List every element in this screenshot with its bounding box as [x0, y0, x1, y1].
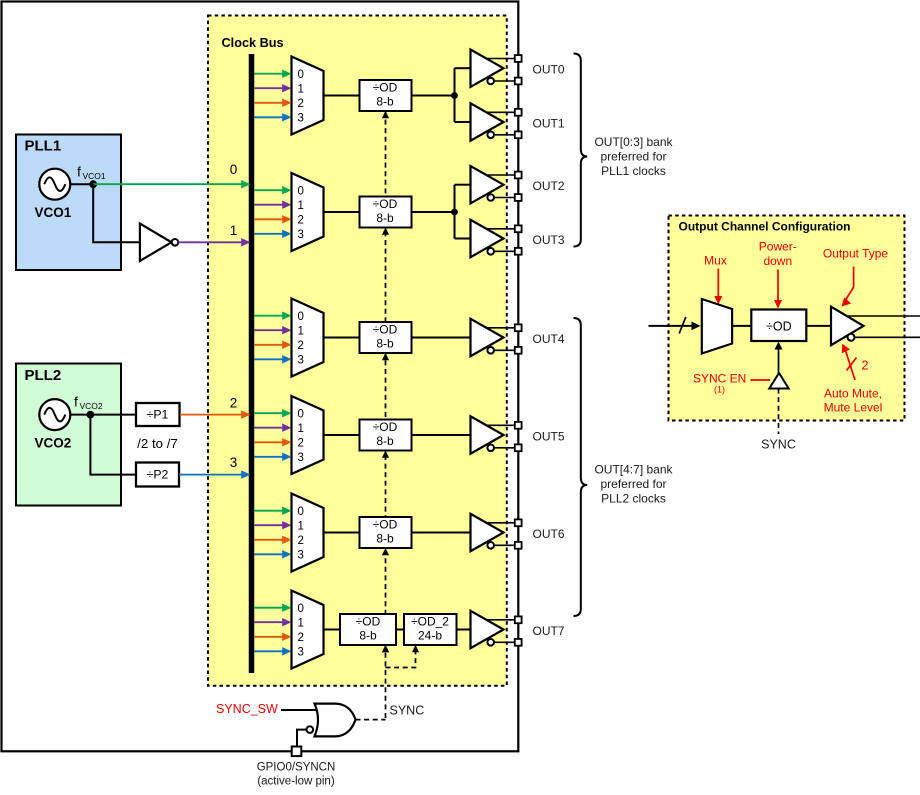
svg-text:down: down — [763, 254, 792, 268]
svg-text:0: 0 — [298, 311, 304, 323]
wire mux M2 to divider OD2 — [324, 211, 360, 213]
svg-text:8-b: 8-b — [376, 337, 394, 351]
wire mux M4 to divider OD4 — [324, 434, 360, 436]
svg-text:2: 2 — [298, 340, 304, 352]
inverting bubble U2B — [487, 248, 494, 255]
svg-text:÷OD: ÷OD — [373, 197, 398, 211]
output buffer U6 — [471, 611, 504, 648]
svg-text:OUT[4:7] bank: OUT[4:7] bank — [594, 463, 673, 477]
svg-text:SYNC: SYNC — [390, 704, 425, 718]
pin OUT3 P — [515, 225, 522, 232]
mux M2 — [292, 173, 324, 251]
Output Channel Configuration box — [669, 216, 905, 421]
wire noninverting output — [848, 315, 920, 317]
pin OUT0 N — [515, 78, 522, 85]
svg-text:1: 1 — [298, 325, 304, 337]
red line SYNC EN to sync buffer — [751, 379, 771, 381]
PLL1 block — [16, 135, 121, 271]
svg-text:OUT6: OUT6 — [533, 527, 565, 541]
svg-text:8-b: 8-b — [376, 95, 394, 109]
svg-text:PLL2 clocks: PLL2 clocks — [601, 492, 666, 506]
svg-text:OUT7: OUT7 — [533, 624, 565, 638]
inverting bubble U1B — [487, 132, 494, 139]
svg-text:Mute Level: Mute Level — [824, 401, 883, 415]
wire divider OD2 to output junction — [412, 211, 455, 213]
oscillator VCO2 — [39, 399, 70, 430]
wire junction to P2 divider — [90, 415, 135, 475]
wire bus input 0 (green) — [93, 183, 241, 185]
wire divider OD1 to output junction — [412, 95, 455, 97]
divider OD4 face — [360, 420, 412, 451]
wire divider to buffer row 3 — [412, 337, 471, 339]
svg-text:SYNC EN: SYNC EN — [693, 372, 746, 386]
wire mux M5 input 1 — [254, 524, 283, 526]
wire SYNC_SW to OR gate — [281, 709, 317, 711]
svg-text:3: 3 — [298, 646, 304, 658]
wire buffer U1B noninverting output — [487, 111, 515, 113]
svg-text:Output Channel Configuration: Output Channel Configuration — [679, 220, 851, 234]
svg-text:0: 0 — [230, 162, 238, 177]
svg-text:8-b: 8-b — [376, 434, 394, 448]
wire mux M3 to divider OD3 — [324, 337, 360, 339]
pin OUT3 N — [515, 248, 522, 255]
svg-text:÷P1: ÷P1 — [147, 407, 169, 421]
bus width slash — [679, 317, 686, 334]
svg-text:3: 3 — [298, 229, 304, 241]
svg-text:0: 0 — [298, 69, 304, 81]
wire GPIO pin to OR gate — [297, 730, 307, 747]
wire VCO2 to junction — [70, 414, 90, 416]
SYNC arrowhead into OD2 — [382, 228, 389, 235]
wire OD6 to OD_2 — [396, 629, 404, 631]
svg-text:1: 1 — [298, 200, 304, 212]
svg-text:3: 3 — [230, 455, 238, 470]
wire buffer U1B inverting output — [495, 134, 515, 136]
wire mux M2 input 3 — [254, 233, 283, 235]
wire mux M6 input 3 — [254, 650, 283, 652]
inverting bubble on OR input — [307, 726, 314, 733]
junction row 1 — [451, 92, 458, 99]
SYNC arrowhead into OD_2 — [412, 645, 419, 652]
output buffer U5 — [471, 514, 504, 551]
wire mux M6 to divider OD6 — [324, 629, 341, 631]
pin GPIO0/SYNCN — [292, 747, 302, 757]
svg-text:2: 2 — [298, 632, 304, 644]
pin OUT4 P — [515, 324, 522, 331]
wire buffer U5 noninverting output — [487, 522, 515, 524]
svg-text:3: 3 — [298, 354, 304, 366]
wire mux M1 input 1 — [254, 87, 283, 89]
svg-text:(active-low pin): (active-low pin) — [257, 776, 334, 788]
divider OD_2 — [404, 614, 457, 645]
wire mux M6 input 2 — [254, 636, 283, 638]
wire SYNC branch to OD_2 — [386, 648, 416, 668]
svg-text:÷OD: ÷OD — [356, 614, 381, 628]
wire buffer U5 inverting output — [495, 544, 515, 546]
red arrow to buffer — [845, 267, 854, 302]
svg-text:VCO1: VCO1 — [83, 171, 106, 181]
output buffer U1A — [471, 50, 504, 87]
svg-text:÷OD: ÷OD — [373, 517, 398, 531]
wire mux M2 input 0 — [254, 189, 283, 191]
inverting bubble — [848, 334, 855, 341]
wire mux M5 input 2 — [254, 539, 283, 541]
wire VCO1 to junction — [70, 183, 93, 185]
wire inverting output — [855, 336, 920, 338]
oscillator VCO1 — [39, 169, 70, 200]
svg-text:PLL2: PLL2 — [25, 367, 62, 384]
svg-text:0: 0 — [298, 603, 304, 615]
pin OUT6 P — [515, 519, 522, 526]
PLL2 block — [16, 364, 121, 506]
divider OD (channel config) — [751, 310, 806, 342]
svg-text:SYNC: SYNC — [761, 438, 796, 452]
divider OD3 — [360, 322, 412, 353]
wire mux M6 input 0 — [254, 607, 283, 609]
SYNC arrowhead into OD6 — [382, 645, 389, 652]
wire mux M1 input 2 — [254, 102, 283, 104]
wire junction to P1 divider — [90, 414, 135, 416]
pin OUT2 P — [515, 172, 522, 179]
wire mux M2 input 2 — [254, 218, 283, 220]
svg-text:2: 2 — [298, 98, 304, 110]
wire buffer U4 noninverting output — [487, 424, 515, 426]
wire buffer U1A noninverting output — [487, 58, 515, 60]
svg-text:÷OD: ÷OD — [373, 80, 398, 94]
OR gate G1 — [315, 704, 356, 737]
pin OUT1 N — [515, 131, 522, 138]
svg-text:2: 2 — [298, 535, 304, 547]
pin OUT0 P — [515, 55, 522, 62]
svg-text:f: f — [74, 394, 78, 410]
svg-text:Clock Bus: Clock Bus — [222, 36, 284, 50]
svg-text:SYNC_SW: SYNC_SW — [216, 702, 278, 716]
divider OD4 — [360, 420, 412, 451]
wire divider to buffer row 4 — [412, 434, 471, 436]
red arrow to mux — [717, 269, 719, 298]
svg-text:OUT0: OUT0 — [533, 63, 565, 77]
bus width slash 2 — [847, 358, 857, 371]
device outline box — [2, 2, 519, 752]
divider OD6 face — [340, 614, 396, 645]
svg-text:f: f — [77, 164, 81, 180]
divider OD1 — [360, 80, 412, 111]
wire mux to OD — [732, 325, 751, 327]
wire OR output SYNC (dashed) — [356, 719, 386, 721]
svg-text:8-b: 8-b — [376, 211, 394, 225]
wire buffer U3 inverting output — [495, 349, 515, 351]
divider OD5 — [360, 517, 412, 548]
svg-text:1: 1 — [298, 83, 304, 95]
clock bus bar net — [249, 54, 255, 673]
brace OUT[0:3] — [574, 54, 588, 247]
wire SYNC dashed vertical — [385, 111, 387, 720]
wire OD to buffer — [806, 325, 831, 327]
output buffer U2B — [471, 220, 504, 257]
svg-text:VCO2: VCO2 — [35, 436, 72, 451]
wire mux M4 input 0 — [254, 412, 283, 414]
inverting bubble U6 — [487, 639, 494, 646]
pin OUT1 P — [515, 109, 522, 116]
wire mux M5 input 0 — [254, 510, 283, 512]
svg-text:÷OD_2: ÷OD_2 — [411, 614, 449, 628]
svg-text:Mux: Mux — [704, 254, 727, 268]
wire buffer U2A noninverting output — [487, 174, 515, 176]
svg-text:OUT5: OUT5 — [533, 430, 565, 444]
wire mux M3 input 0 — [254, 315, 283, 317]
wire mux M5 input 3 — [254, 553, 283, 555]
svg-text:Auto Mute,: Auto Mute, — [824, 387, 882, 401]
svg-text:PLL1 clocks: PLL1 clocks — [601, 164, 666, 178]
svg-text:2: 2 — [298, 437, 304, 449]
wire mux M5 to divider OD5 — [324, 532, 360, 534]
wire mux M3 input 1 — [254, 329, 283, 331]
mux (channel config) — [702, 299, 732, 354]
clock bus region — [208, 16, 507, 686]
svg-text:1: 1 — [298, 520, 304, 532]
wire junction to inverter — [93, 184, 140, 242]
pin OUT7 N — [515, 639, 522, 646]
SYNC arrowhead into OD1 — [382, 111, 389, 118]
inverting bubble U2A — [487, 194, 494, 201]
svg-text:1: 1 — [298, 423, 304, 435]
svg-text:1: 1 — [298, 617, 304, 629]
pin OUT5 N — [515, 444, 522, 451]
svg-text:3: 3 — [298, 549, 304, 561]
wire mux M1 to divider OD1 — [324, 95, 360, 97]
inverter U1 — [140, 224, 172, 261]
svg-text:preferred for: preferred for — [600, 477, 666, 491]
wire junction to buffers row 2 — [454, 185, 456, 239]
pin OUT7 P — [515, 616, 522, 623]
junction row 2 — [451, 209, 458, 216]
svg-text:OUT2: OUT2 — [533, 179, 565, 193]
SYNC arrowhead into OD4 — [382, 451, 389, 458]
wire junction to buffers row 1 — [454, 68, 456, 122]
wire sync buffer to OD — [778, 344, 780, 373]
wire channel input — [649, 325, 693, 327]
svg-text:OUT[0:3] bank: OUT[0:3] bank — [594, 135, 673, 149]
svg-text:2: 2 — [230, 396, 238, 411]
svg-text:OUT4: OUT4 — [533, 332, 565, 346]
red arrow to OD — [777, 270, 779, 302]
output buffer (channel config) — [831, 307, 864, 346]
inverting bubble U1A — [487, 78, 494, 85]
svg-text:0: 0 — [298, 185, 304, 197]
svg-text:OUT1: OUT1 — [533, 117, 565, 131]
wire bus input 1 (purple) — [178, 241, 241, 243]
output buffer U4 — [471, 416, 504, 453]
wire mux M6 input 1 — [254, 621, 283, 623]
wire bus input 2 (orange) — [180, 414, 242, 416]
inverting bubble U5 — [487, 542, 494, 549]
svg-text:÷OD: ÷OD — [373, 322, 398, 336]
svg-text:3: 3 — [298, 112, 304, 124]
pin OUT5 P — [515, 422, 522, 429]
svg-text:PLL1: PLL1 — [25, 138, 62, 155]
wire buffer U6 inverting output — [495, 641, 515, 643]
divider OD2 face — [360, 197, 412, 228]
output buffer U1B — [471, 103, 504, 140]
pin OUT4 N — [515, 347, 522, 354]
inverting bubble U4 — [487, 445, 494, 452]
mux M5 — [292, 494, 324, 572]
wire mux M2 input 1 — [254, 204, 283, 206]
mux M6 — [292, 591, 324, 669]
svg-text:÷P2: ÷P2 — [147, 467, 169, 481]
junction node fVCO2 — [87, 411, 95, 419]
svg-text:2: 2 — [298, 214, 304, 226]
svg-text:preferred for: preferred for — [600, 150, 666, 164]
svg-text:GPIO0/SYNCN: GPIO0/SYNCN — [257, 762, 336, 774]
pin OUT2 N — [515, 194, 522, 201]
divider P1 — [136, 403, 180, 426]
svg-text:Output Type: Output Type — [823, 247, 888, 261]
svg-text:3: 3 — [298, 452, 304, 464]
SYNC arrowhead into OD3 — [382, 353, 389, 360]
svg-text:24-b: 24-b — [418, 629, 442, 643]
output buffer U2A — [471, 166, 504, 203]
svg-text:÷OD: ÷OD — [373, 420, 398, 434]
svg-text:VCO2: VCO2 — [80, 401, 103, 411]
svg-text:0: 0 — [298, 408, 304, 420]
svg-text:0: 0 — [298, 506, 304, 518]
wire buffer U3 noninverting output — [487, 327, 515, 329]
divider OD6 — [340, 614, 396, 645]
wire mux M4 input 1 — [254, 427, 283, 429]
junction node fVCO1 — [89, 180, 97, 188]
wire buffer U2A inverting output — [495, 197, 515, 199]
svg-text:8-b: 8-b — [359, 629, 377, 643]
svg-text:1: 1 — [230, 223, 238, 238]
svg-text:VCO1: VCO1 — [35, 205, 72, 220]
svg-text:÷OD: ÷OD — [766, 320, 792, 334]
inverting bubble U3 — [487, 347, 494, 354]
red arrow Auto Mute to bubble — [845, 348, 856, 381]
brace OUT[4:7] — [574, 318, 588, 616]
pin OUT6 N — [515, 542, 522, 549]
svg-text:/2 to /7: /2 to /7 — [137, 436, 178, 451]
wire SYNC dashed into box — [778, 389, 780, 435]
wire mux M1 input 3 — [254, 116, 283, 118]
wire mux M4 input 2 — [254, 441, 283, 443]
mux M4 — [292, 396, 324, 474]
svg-text:OUT3: OUT3 — [533, 233, 565, 247]
svg-text:8-b: 8-b — [376, 532, 394, 546]
divider OD2 — [360, 197, 412, 228]
wire mux M4 input 3 — [254, 456, 283, 458]
wire buffer U6 noninverting output — [487, 619, 515, 621]
wire mux M3 input 3 — [254, 358, 283, 360]
mux M1 — [292, 57, 324, 135]
sync enable buffer triangle — [769, 373, 788, 389]
mux M3 — [292, 299, 324, 377]
divider OD5 face — [360, 517, 412, 548]
svg-text:2: 2 — [862, 359, 869, 373]
wire mux M1 input 0 — [254, 73, 283, 75]
wire buffer U2B inverting output — [495, 250, 515, 252]
wire bus input 3 (blue) — [179, 474, 242, 476]
wire buffer U2B noninverting output — [487, 228, 515, 230]
wire mux M3 input 2 — [254, 344, 283, 346]
output buffer U3 — [471, 319, 504, 356]
svg-text:(1): (1) — [714, 385, 725, 395]
wire buffer U1A inverting output — [495, 80, 515, 82]
wire divider to buffer row 6 — [457, 629, 471, 631]
SYNC arrowhead into OD5 — [382, 548, 389, 555]
wire buffer U4 inverting output — [495, 447, 515, 449]
wire divider to buffer row 5 — [412, 532, 471, 534]
divider P2 — [136, 463, 179, 487]
svg-text:Power-: Power- — [759, 240, 797, 254]
divider OD3 face — [360, 322, 412, 353]
